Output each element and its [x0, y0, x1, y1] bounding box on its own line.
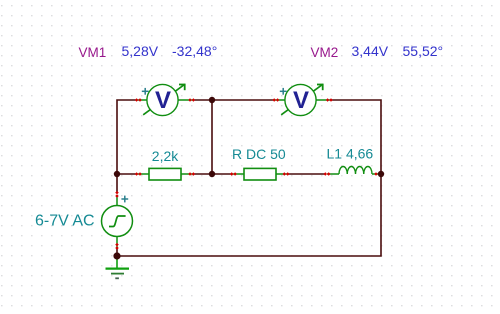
resistor R1 2,2k — [137, 168, 193, 180]
pin L1 right — [374, 172, 378, 176]
pin R2 right — [283, 172, 290, 176]
svg-text:55,52°: 55,52° — [403, 43, 444, 59]
pin V1 top — [115, 191, 119, 198]
wire R1 right pin to R2 left pin through node C — [193, 173, 232, 175]
svg-text:VM2: VM2 — [311, 45, 339, 60]
pin R1 left — [135, 172, 142, 176]
svg-text:-32,48°: -32,48° — [172, 43, 217, 59]
resistor R2 R DC 50 — [232, 168, 287, 180]
pin VM1 right — [188, 98, 195, 102]
wire V1 bottom pin to node E — [116, 247, 118, 256]
pin L1 left — [324, 172, 331, 176]
pin VM1 left — [135, 98, 142, 102]
wire middle vertical node A2 to node C — [211, 100, 213, 174]
pin VM2 left — [272, 98, 279, 102]
wire R2 right pin to L1 left pin — [287, 173, 326, 175]
wire VM2 right pin to right corner down to node D — [331, 100, 381, 174]
ground — [106, 256, 130, 278]
wire from VM1 left pin left to top corner and down left side to node B — [117, 100, 137, 174]
junction node E — [113, 252, 120, 259]
pin VM2 right — [326, 98, 333, 102]
wire node D down and bottom to ground node E — [117, 174, 381, 256]
wire node B to V1 top pin — [116, 174, 118, 193]
svg-text:L1 4,66: L1 4,66 — [327, 146, 374, 162]
inductor L1 — [327, 166, 379, 174]
svg-text:V: V — [155, 87, 171, 114]
svg-text:V: V — [293, 87, 309, 114]
pin R1 right — [188, 172, 195, 176]
svg-text:3,44V: 3,44V — [352, 43, 389, 59]
svg-text:6-7V AC: 6-7V AC — [35, 213, 95, 230]
wire node B to R1 left pin — [117, 173, 137, 175]
junction node A2 — [209, 97, 215, 103]
junction node C — [209, 171, 215, 177]
pin R2 left — [230, 172, 237, 176]
voltmeter VM1 — [137, 84, 193, 116]
svg-text:R DC 50: R DC 50 — [232, 146, 286, 162]
junction node B — [114, 171, 120, 177]
svg-text:2,2k: 2,2k — [152, 148, 179, 164]
voltmeter VM2 — [275, 84, 331, 116]
svg-text:VM1: VM1 — [79, 45, 107, 60]
ac source V1 — [102, 196, 133, 247]
pin V1 bottom — [115, 243, 119, 250]
junction node D — [378, 171, 384, 177]
wire VM1 right pin to VM2 left pin through node A2 — [193, 99, 274, 101]
svg-text:5,28V: 5,28V — [122, 43, 159, 59]
